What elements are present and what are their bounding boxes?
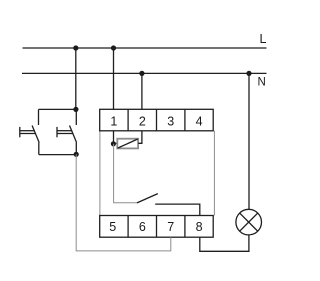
wire L line	[23, 47, 267, 49]
junction on N at lamp branch	[246, 71, 251, 76]
svg-text:5: 5	[109, 220, 116, 234]
svg-text:6: 6	[139, 220, 146, 234]
wire N line	[22, 72, 267, 74]
svg-text:1: 1	[110, 114, 117, 128]
wire buttons to terminal 7	[76, 154, 171, 251]
svg-text:L: L	[260, 32, 267, 46]
push button S1	[20, 109, 39, 154]
svg-text:8: 8	[196, 220, 203, 234]
wire L to terminal 1	[113, 48, 115, 109]
svg-text:4: 4	[196, 114, 203, 128]
wire coil to terminal 2	[138, 131, 142, 144]
junction on L at terminal 1 branch	[111, 45, 116, 50]
push button S2	[57, 109, 77, 154]
terminal strip 1-4	[100, 109, 214, 131]
lamp E1	[236, 209, 262, 235]
junction buttons top rail	[73, 107, 78, 112]
wire N to lamp	[248, 73, 250, 209]
junction buttons bottom rail	[74, 152, 79, 157]
svg-text:7: 7	[167, 220, 174, 234]
wire buttons top rail	[39, 108, 76, 110]
wire coil node down to contact	[114, 144, 137, 203]
wire terminal 1 to coil node	[113, 131, 115, 144]
terminal strip 5-8	[100, 216, 214, 238]
wire terminal 8 to lamp	[200, 235, 249, 251]
svg-text:3: 3	[167, 114, 174, 128]
wire coil node to coil	[113, 142, 117, 144]
relay coil K1	[117, 139, 138, 149]
junction on N at terminal 2 branch	[139, 71, 144, 76]
wire buttons bottom rail	[39, 154, 76, 156]
wire N to terminal 2	[141, 73, 143, 109]
junction on L at buttons branch	[73, 45, 78, 50]
svg-text:2: 2	[139, 114, 146, 128]
relay contact blade	[137, 194, 158, 203]
wire contact to terminal 8	[155, 204, 200, 215]
junction coil node	[111, 141, 116, 146]
svg-text:N: N	[258, 76, 266, 88]
wire L to buttons	[75, 48, 77, 109]
relay body outline	[100, 131, 214, 216]
